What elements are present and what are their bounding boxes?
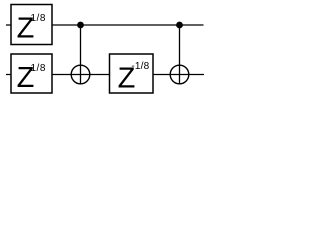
target XOR CNOT2 bbox=[170, 65, 189, 84]
wire CNOT2 vertical bbox=[179, 25, 181, 84]
target XOR CNOT1 bbox=[71, 65, 90, 84]
svg-text:1/8: 1/8 bbox=[31, 13, 46, 24]
control dot CNOT1 bbox=[77, 22, 84, 29]
wire q1 bbox=[6, 74, 204, 76]
gate U3 Z^-1/8 q1 bbox=[110, 54, 154, 95]
control dot CNOT2 bbox=[176, 22, 183, 29]
gate U2 Z^1/8 q1 bbox=[11, 54, 52, 94]
svg-text:1/8: 1/8 bbox=[31, 63, 46, 74]
wire q0 bbox=[6, 24, 204, 26]
svg-text:-1/8: -1/8 bbox=[131, 61, 149, 72]
wire CNOT1 vertical bbox=[80, 25, 82, 84]
gate U1 Z^1/8 q0 bbox=[11, 5, 52, 45]
